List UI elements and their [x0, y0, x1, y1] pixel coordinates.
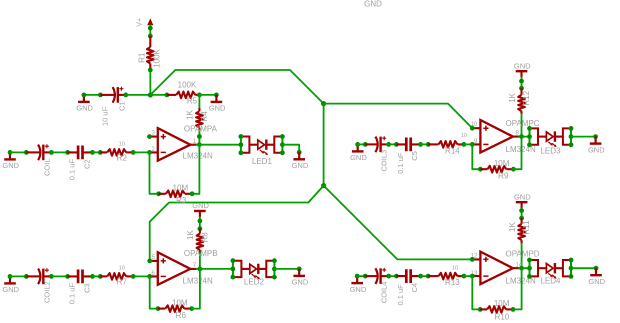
svg-text:10: 10 [461, 133, 467, 139]
pin junction C3 left [65, 274, 70, 279]
svg-text:R4: R4 [200, 111, 209, 122]
node output A [197, 142, 202, 147]
resistor R11 1K [518, 218, 525, 243]
LED socket bracket (right) [266, 258, 277, 279]
pin junction + input [470, 126, 475, 131]
pin junction C4 right [418, 274, 423, 279]
svg-text:R13: R13 [445, 278, 460, 287]
pin junction C5 left [394, 142, 399, 147]
op-amp OPAMPA [150, 128, 197, 161]
LED socket bracket (left) [231, 258, 242, 279]
wire C1 to bias node [126, 94, 151, 96]
pin junction R14 right [462, 142, 467, 147]
pin junction [355, 142, 360, 147]
wire bias to R5 [150, 94, 167, 96]
wire feedback left [472, 276, 480, 309]
svg-text:1K: 1K [186, 230, 195, 240]
ground (COIL) [2, 152, 19, 170]
svg-text:10 uF: 10 uF [101, 106, 110, 126]
pin junction [355, 274, 360, 279]
node output B [198, 267, 203, 272]
pin junction C2 right [90, 150, 95, 155]
LED LED4 [538, 263, 563, 279]
wire output A to LED1 [199, 144, 241, 146]
svg-text:LED1: LED1 [252, 157, 273, 166]
pin junction gnd [593, 134, 598, 139]
wire to OPAMPC - [464, 143, 472, 145]
pin junction [519, 79, 524, 84]
svg-text:V+: V+ [136, 18, 143, 27]
wire [521, 208, 523, 221]
pin junction COIL2 left [24, 274, 29, 279]
wire [197, 144, 200, 146]
node output D [519, 266, 524, 271]
LED socket bracket (right) [274, 134, 285, 155]
pin junction R13 left [426, 274, 431, 279]
resistor R2 10 [100, 149, 133, 156]
svg-text:10: 10 [119, 141, 125, 147]
pin junction C1 left [98, 93, 103, 98]
capacitor COIL [26, 144, 51, 160]
svg-text:100K: 100K [178, 80, 197, 89]
pin junction R11 top [519, 216, 524, 221]
pin junction C4 left [394, 274, 399, 279]
wire to OPAMPB - [133, 275, 150, 277]
resistor R5 100K [167, 92, 200, 99]
wire node X to node Y [323, 104, 325, 186]
ground (C1) [76, 95, 93, 113]
wire feedback left [150, 276, 158, 308]
V+ supply symbol [147, 18, 153, 25]
pin junction COIL2 right [49, 274, 54, 279]
svg-text:0.1 uF: 0.1 uF [68, 159, 77, 181]
pin junction gnd [214, 93, 219, 98]
svg-text:R7: R7 [117, 277, 128, 286]
pin junction + input [147, 134, 152, 139]
ground (LED1) [292, 152, 309, 170]
pin junction C1 right [123, 93, 128, 98]
resistor R3 10M [159, 191, 192, 198]
wire node Y to OPAMPB + [150, 186, 324, 261]
wire [10, 151, 26, 153]
resistor R1 100K [147, 36, 154, 70]
svg-text:R6: R6 [176, 311, 187, 320]
wire [358, 143, 366, 145]
svg-text:COIL2: COIL2 [42, 281, 51, 303]
pin junction R7 right [131, 274, 136, 279]
svg-text:GND: GND [588, 277, 605, 286]
pin junction R3 left [156, 191, 161, 196]
wire R11 to output [521, 244, 523, 269]
node output C [519, 134, 524, 139]
pin junction COIL4 right [386, 274, 391, 279]
node Y [321, 183, 326, 188]
wire [51, 275, 67, 277]
pin junction R1 bottom [148, 68, 153, 73]
wire [389, 143, 397, 145]
wire [51, 151, 67, 153]
capacitor C5 0.1uF [396, 138, 420, 152]
wire [421, 275, 429, 277]
svg-text:10M: 10M [173, 184, 189, 193]
svg-text:10M: 10M [494, 299, 510, 308]
svg-text:OPAMPC: OPAMPC [506, 119, 540, 128]
capacitor C1 10uF [100, 87, 125, 103]
svg-text:C5: C5 [410, 151, 419, 161]
svg-text:GND: GND [192, 201, 209, 210]
svg-text:1K: 1K [186, 110, 195, 120]
svg-text:0.1 uF: 0.1 uF [68, 283, 77, 305]
ground (R11) [514, 192, 531, 208]
svg-text:LED3: LED3 [540, 147, 561, 156]
svg-text:GND: GND [2, 285, 19, 294]
svg-text:1K: 1K [508, 92, 517, 102]
pin junction C3 right [90, 274, 95, 279]
ground (LED3) [588, 137, 605, 155]
pin junction gnd [297, 150, 302, 155]
svg-text:R2: R2 [117, 153, 128, 162]
svg-text:COIL: COIL [42, 158, 51, 176]
svg-text:R1: R1 [137, 52, 146, 63]
pin junction R2 left [98, 150, 103, 155]
pin junction COIL right [49, 150, 54, 155]
pin junction R3 right [190, 191, 195, 196]
pin junction R9 left [478, 167, 483, 172]
pin junction - input [147, 150, 152, 155]
resistor R9 10M [480, 166, 513, 173]
svg-text:10M: 10M [494, 159, 510, 168]
svg-text:C3: C3 [82, 283, 91, 293]
ground (LED4) [588, 268, 605, 286]
wire R4 to output [198, 131, 200, 145]
pin junction [148, 26, 153, 31]
svg-text:R9: R9 [498, 171, 509, 180]
svg-text:0.1 uF: 0.1 uF [396, 152, 405, 174]
node X [321, 101, 326, 106]
LED socket bracket (left) [527, 126, 538, 147]
capacitor C4 0.1uF [396, 269, 420, 283]
wire [199, 217, 201, 229]
svg-text:10M: 10M [172, 298, 188, 307]
pin junction COIL3 left [363, 142, 368, 147]
capacitor COIL4 [365, 268, 388, 284]
wire R1 to bias node [149, 70, 151, 95]
svg-text:0.1 uF: 0.1 uF [396, 284, 405, 306]
op-amp OPAMPD [472, 252, 519, 285]
wire output D to LED4 [522, 267, 530, 269]
pin junction [8, 150, 13, 155]
pin junction - input [147, 274, 152, 279]
wire LED3 to gnd [571, 136, 596, 138]
svg-text:10: 10 [119, 265, 125, 271]
wire bias bus to node X [150, 70, 323, 104]
wire [389, 275, 397, 277]
resistor R4 1K [196, 108, 203, 131]
wire [519, 267, 521, 269]
wire [357, 275, 365, 277]
pin junction gnd [594, 266, 599, 271]
wire LED4 to gnd [571, 267, 596, 269]
ground (R12) [514, 61, 531, 77]
wire to OPAMPD - [464, 275, 472, 277]
pin junction R9 right [511, 167, 516, 172]
wire to OPAMPA - [133, 151, 149, 153]
svg-text:R14: R14 [445, 146, 460, 155]
wire [93, 275, 101, 277]
pin junction R6 right [189, 306, 194, 311]
resistor R10 10M [480, 306, 513, 313]
pin junction R10 left [478, 307, 483, 312]
LED LED2 [241, 264, 266, 280]
pin junction COIL4 left [363, 274, 368, 279]
svg-text:LM324N: LM324N [183, 152, 213, 161]
wire feedback left [472, 144, 480, 169]
wire gnd to C1 [84, 94, 101, 96]
resistor R12 1K [518, 88, 525, 114]
capacitor COIL2 [26, 268, 51, 284]
svg-text:10: 10 [452, 265, 458, 271]
pin junction [198, 219, 203, 224]
node R5/R4 junction [197, 93, 202, 98]
wire feedback right [513, 137, 521, 170]
wire V+ to R1 [149, 25, 151, 36]
wire node Y to OPAMPD + [324, 186, 473, 260]
pin junction - input [470, 142, 475, 147]
svg-text:R8: R8 [200, 232, 209, 243]
svg-text:R5: R5 [187, 97, 198, 106]
wire [93, 151, 101, 153]
svg-text:GND: GND [364, 0, 382, 8]
LED LED3 [538, 131, 563, 147]
svg-text:LED4: LED4 [540, 277, 561, 286]
svg-text:1K: 1K [508, 222, 517, 232]
wire [421, 143, 429, 145]
svg-text:R11: R11 [522, 220, 531, 235]
resistor R6 10M [158, 305, 192, 312]
pin junction R5 left [165, 93, 170, 98]
svg-text:GND: GND [292, 161, 309, 170]
svg-text:GND: GND [350, 153, 367, 162]
svg-text:R3: R3 [176, 196, 187, 205]
node bias junction [148, 92, 153, 97]
wire LED1 to gnd [282, 145, 299, 153]
wire [10, 275, 26, 277]
wire output B to LED2 [200, 268, 233, 270]
pin junction + input [147, 259, 152, 264]
wire R4 top [198, 95, 200, 108]
resistor R8 1K [197, 229, 204, 253]
wire [197, 268, 200, 270]
wire [521, 77, 523, 92]
wire feedback right [513, 268, 522, 309]
pin junction R1 top [148, 34, 153, 39]
LED LED1 [249, 140, 274, 156]
pin junction gnd [297, 267, 302, 272]
pin junction R13 right [462, 274, 467, 279]
LED socket bracket (left) [527, 258, 538, 279]
pin junction C5 right [418, 142, 423, 147]
wire output C to LED3 [522, 136, 530, 138]
pin junction gnd [82, 93, 87, 98]
ground (COIL3) [350, 144, 367, 162]
svg-text:LM324N: LM324N [183, 277, 213, 286]
svg-text:GND: GND [209, 104, 226, 113]
svg-text:R10: R10 [495, 312, 510, 321]
ground (R8) [192, 201, 209, 217]
svg-text:OPAMPD: OPAMPD [506, 250, 540, 259]
ground (COIL2) [2, 276, 19, 294]
ground (LED2) [292, 269, 309, 287]
pin junction COIL3 right [386, 142, 391, 147]
svg-text:C4: C4 [410, 283, 419, 293]
wire [519, 136, 521, 138]
svg-text:C1: C1 [118, 101, 127, 111]
pin junction COIL left [24, 150, 29, 155]
wire R5 to gnd [199, 94, 216, 96]
pin junction C2 left [65, 150, 70, 155]
pin junction R10 right [511, 307, 516, 312]
pin junction R2 right [131, 150, 136, 155]
LED socket bracket (right) [563, 126, 573, 147]
pin junction - input [470, 274, 475, 279]
ground (R5) [209, 95, 226, 113]
svg-text:COIL3: COIL3 [380, 150, 389, 172]
svg-text:OPAMPA: OPAMPA [184, 125, 218, 134]
junction [197, 134, 202, 139]
capacitor C3 0.1uF [68, 270, 93, 284]
resistor R13 10 [428, 273, 464, 280]
pin junction R8 top [198, 226, 203, 231]
svg-text:100K: 100K [153, 48, 162, 67]
svg-text:GND: GND [514, 61, 531, 70]
wire R8 to output [199, 253, 201, 269]
pin junction [8, 274, 13, 279]
svg-text:OPAMPB: OPAMPB [184, 249, 218, 258]
op-amp OPAMPB [150, 252, 197, 284]
pin junction + input [470, 257, 475, 262]
svg-text:GND: GND [514, 192, 531, 201]
op-amp OPAMPC [472, 120, 519, 153]
pin junction [519, 208, 524, 213]
svg-text:GND: GND [588, 145, 605, 154]
svg-text:GND: GND [2, 161, 19, 170]
svg-text:COIL4: COIL4 [380, 282, 389, 304]
svg-text:GND: GND [292, 278, 309, 287]
wire feedback right [192, 269, 200, 309]
svg-text:GND: GND [350, 285, 367, 294]
pin junction R12 top [519, 86, 524, 91]
svg-text:LED2: LED2 [244, 277, 265, 286]
ground (COIL4) [350, 276, 367, 294]
wire LED2 to gnd [274, 268, 299, 270]
resistor R7 10 [100, 273, 133, 280]
pin junction R14 left [426, 142, 431, 147]
svg-text:R12: R12 [522, 90, 531, 105]
svg-text:C2: C2 [82, 159, 91, 169]
wire feedback right [192, 145, 199, 194]
pin junction R7 left [98, 274, 103, 279]
capacitor C2 0.1uF [68, 146, 93, 160]
LED socket bracket (left) [239, 134, 250, 155]
svg-text:GND: GND [76, 104, 93, 113]
wire node X to OPAMPC + [324, 104, 473, 129]
wire feedback left [150, 152, 159, 193]
wire R12 to output [521, 114, 523, 137]
pin junction R6 left [156, 306, 161, 311]
resistor R14 10 [428, 141, 464, 148]
LED socket bracket (right) [563, 258, 573, 279]
capacitor COIL3 [365, 136, 388, 152]
